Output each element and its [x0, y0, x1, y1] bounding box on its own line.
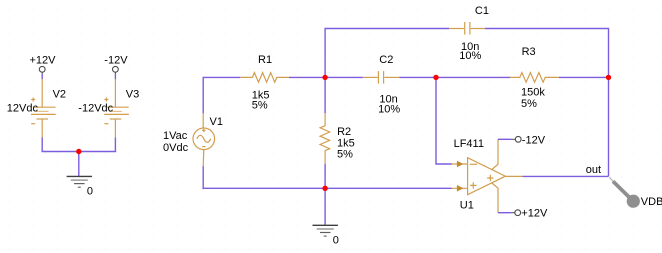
svg-text:-12Vdc: -12Vdc: [78, 103, 113, 115]
svg-text:V3: V3: [126, 89, 139, 101]
power port +12V (left): [30, 54, 57, 74]
ground 0 (middle): [313, 225, 339, 246]
wire output / node out: [523, 175, 609, 177]
svg-text:150k: 150k: [521, 86, 545, 98]
wire R2 top: [324, 77, 326, 113]
wire R3 to right junction: [559, 76, 609, 78]
wire V2-V3 bottom bus: [42, 151, 117, 153]
junction R3/feedback: [606, 75, 611, 80]
power port +12V (op-amp): [512, 208, 548, 220]
svg-text:-12V: -12V: [104, 54, 128, 66]
wire V- pin to port: [498, 138, 511, 140]
svg-text:10%: 10%: [459, 50, 481, 62]
svg-text:12Vdc: 12Vdc: [7, 103, 39, 115]
dc source V2: [31, 79, 56, 137]
svg-text:+12V: +12V: [521, 208, 548, 220]
wire V2 bottom: [41, 137, 43, 152]
svg-text:LF411: LF411: [454, 138, 484, 150]
svg-text:V2: V2: [53, 89, 66, 101]
resistor R3: [510, 73, 559, 83]
svg-text:1Vac: 1Vac: [163, 130, 188, 142]
capacitor C1: [449, 22, 485, 35]
wire V3 bottom: [114, 137, 116, 152]
svg-text:5%: 5%: [337, 148, 353, 160]
svg-text:0: 0: [87, 186, 93, 198]
svg-text:0: 0: [333, 235, 339, 247]
wire V1 bottom vertical: [202, 166, 204, 189]
resistor R2: [320, 113, 330, 164]
wire to left ground: [78, 152, 80, 177]
svg-text:R1: R1: [258, 54, 272, 66]
wire V3 top: [114, 74, 116, 80]
wire junction to R3: [436, 76, 510, 78]
svg-text:0Vdc: 0Vdc: [163, 142, 189, 154]
dc source V3: [104, 79, 129, 137]
resistor R1: [240, 73, 289, 83]
wire bottom bus: [203, 187, 452, 189]
svg-text:VDB: VDB: [641, 196, 662, 208]
svg-text:-12V: -12V: [522, 134, 546, 146]
junction C2/R3/op-amp input: [433, 75, 438, 80]
ac source V1: [193, 113, 215, 166]
power port -12V (op-amp): [511, 134, 546, 146]
wire top row left: [325, 29, 449, 78]
wire to middle ground: [324, 188, 326, 225]
junction V2/V3/ground: [76, 149, 81, 154]
wire inverting input: [436, 77, 452, 164]
probe VDB: [609, 177, 662, 208]
svg-text:U1: U1: [460, 199, 474, 211]
wire junction to C2: [325, 76, 363, 78]
wire V1 top vertical: [203, 77, 240, 113]
svg-text:out: out: [586, 164, 601, 176]
svg-text:C2: C2: [379, 54, 393, 66]
svg-text:R3: R3: [522, 46, 536, 58]
wire V2 top: [41, 74, 43, 80]
wire R1 to junction: [289, 76, 325, 78]
wire C2 to junction: [399, 76, 436, 78]
svg-text:5%: 5%: [521, 98, 537, 110]
junction R2/bottom bus: [322, 186, 327, 191]
capacitor C2: [363, 71, 400, 84]
ground 0 (left): [67, 176, 93, 197]
power port -12V (left): [104, 54, 128, 74]
wire R2 bottom: [324, 164, 326, 189]
wire V+ pin to port: [498, 212, 512, 214]
junction R1/C2/R2: [322, 75, 327, 80]
wire top row right: [485, 29, 609, 177]
svg-text:C1: C1: [475, 5, 489, 17]
svg-text:10%: 10%: [378, 103, 400, 115]
svg-text:5%: 5%: [252, 99, 268, 111]
svg-text:+12V: +12V: [30, 54, 57, 66]
svg-text:V1: V1: [210, 116, 223, 128]
op-amp U1: [452, 139, 523, 212]
